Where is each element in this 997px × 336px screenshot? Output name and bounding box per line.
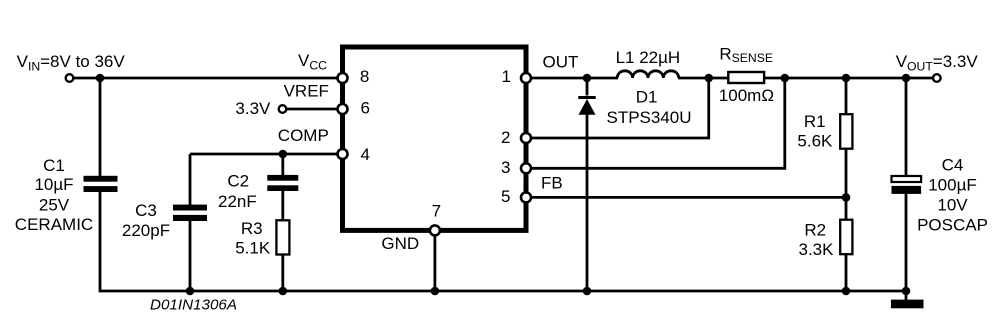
svg-text:10V: 10V xyxy=(937,196,968,215)
resistor R3 symbol xyxy=(276,220,289,254)
diode D1 symbol xyxy=(578,96,595,115)
wire: OUT from pin 1 to L1 xyxy=(526,77,618,80)
terminal: VOUT output xyxy=(933,74,941,82)
wire: pin 2 to switch node xyxy=(526,78,709,138)
svg-text:3.3V: 3.3V xyxy=(235,99,271,118)
svg-text:1: 1 xyxy=(502,67,511,86)
svg-text:C1: C1 xyxy=(43,156,65,175)
wire: L1 to RSENSE xyxy=(678,77,729,80)
svg-text:5: 5 xyxy=(501,187,510,206)
svg-text:100mΩ: 100mΩ xyxy=(719,86,774,105)
wire: VIN input rail to pin 8 xyxy=(70,77,343,80)
svg-text:VREF: VREF xyxy=(284,81,329,100)
capacitor C2 symbol xyxy=(267,175,298,191)
wire: D1 cathode lead xyxy=(586,78,589,96)
svg-text:STPS340U: STPS340U xyxy=(607,108,692,127)
svg-text:6: 6 xyxy=(361,99,370,118)
svg-text:FB: FB xyxy=(541,174,563,193)
svg-text:7: 7 xyxy=(432,201,441,220)
svg-text:D01IN1306A: D01IN1306A xyxy=(150,297,237,314)
pin 4 circle xyxy=(338,149,348,159)
svg-text:25V: 25V xyxy=(39,196,70,215)
wire: FB line from pin 5 xyxy=(526,196,846,199)
svg-text:3: 3 xyxy=(501,158,510,177)
wire: R1 upper lead xyxy=(845,78,848,115)
terminal: VIN input xyxy=(66,74,74,82)
node: L1-RSENSE / pin 2 junction xyxy=(704,74,713,83)
svg-text:D1: D1 xyxy=(636,87,658,106)
terminal: 3.3V VREF xyxy=(279,105,287,113)
svg-text:3.3K: 3.3K xyxy=(799,240,835,259)
wire: C4 lower lead xyxy=(905,192,908,291)
wire: C2 to R3 lead xyxy=(281,190,284,222)
label: C1 name and value block xyxy=(15,156,93,234)
wire: R1 to R2 lead xyxy=(845,148,848,221)
node: C4 ground junction xyxy=(902,287,911,296)
pin 8 circle xyxy=(338,73,348,83)
wire: VREF 3.3V to pin 6 xyxy=(283,108,343,111)
svg-text:GND: GND xyxy=(381,234,419,253)
wire: C3 lower lead xyxy=(189,220,192,292)
svg-text:COMP: COMP xyxy=(278,126,329,145)
resistor RSENSE symbol xyxy=(728,72,764,83)
svg-text:C4: C4 xyxy=(942,155,964,174)
svg-text:10µF: 10µF xyxy=(34,175,73,194)
pin 1 circle xyxy=(521,73,531,83)
svg-text:R2: R2 xyxy=(804,221,826,240)
svg-text:4: 4 xyxy=(361,145,370,164)
node: R3 ground junction xyxy=(279,287,288,296)
svg-text:22nF: 22nF xyxy=(218,192,257,211)
wire: pin 7 GND lead xyxy=(433,230,436,291)
resistor R1 symbol xyxy=(840,114,852,149)
wire: R2 lower lead xyxy=(845,254,848,292)
IC U1 regulator box xyxy=(343,47,527,230)
pin 2 circle xyxy=(521,133,531,143)
wire: C1 branch from VIN node xyxy=(99,78,102,177)
svg-text:2: 2 xyxy=(501,128,510,147)
svg-text:5.6K: 5.6K xyxy=(797,132,833,151)
node: VIN junction xyxy=(96,74,105,83)
node: R1 top junction xyxy=(842,74,851,83)
node: pin 7 ground junction xyxy=(431,287,440,296)
pin 3 circle xyxy=(521,163,531,173)
wire: COMP from pin 4 xyxy=(190,153,343,156)
svg-text:R1: R1 xyxy=(804,112,826,131)
node: COMP junction xyxy=(279,150,288,159)
node: C4 top junction xyxy=(902,74,911,83)
wire: RSENSE to VOUT terminal xyxy=(764,77,937,80)
resistor R2 symbol xyxy=(840,220,852,255)
svg-text:C3: C3 xyxy=(135,201,157,220)
capacitor C3 symbol xyxy=(173,205,207,221)
pin 7 circle xyxy=(430,225,440,235)
node: RSENSE sense junction xyxy=(781,74,790,83)
svg-text:220pF: 220pF xyxy=(122,221,170,240)
node: D1 anode ground junction xyxy=(583,287,592,296)
inductor L1 symbol xyxy=(617,71,679,78)
svg-text:CERAMIC: CERAMIC xyxy=(15,215,93,234)
node: D1 cathode / switch node xyxy=(583,74,592,83)
node: FB divider junction xyxy=(842,193,851,202)
svg-text:OUT: OUT xyxy=(543,52,579,71)
wire: C1 lower lead + bottom ground rail xyxy=(100,191,906,292)
svg-text:POSCAP: POSCAP xyxy=(917,216,988,235)
svg-text:100µF: 100µF xyxy=(928,176,977,195)
svg-text:8: 8 xyxy=(360,67,369,86)
pin 5 circle xyxy=(521,192,531,202)
ground symbol xyxy=(891,300,924,309)
node: R2 ground junction xyxy=(842,287,851,296)
capacitor C4 polarized symbol xyxy=(892,176,922,194)
svg-text:C2: C2 xyxy=(227,171,249,190)
capacitor C1 symbol xyxy=(84,176,118,192)
node: C3 ground junction xyxy=(186,287,195,296)
wire: D1 anode lead to ground rail xyxy=(586,114,589,291)
wire: C4 upper lead xyxy=(905,78,908,177)
svg-text:5.1K: 5.1K xyxy=(235,239,271,258)
wire: ground stub below C4 node xyxy=(905,291,908,301)
svg-text:R3: R3 xyxy=(241,219,263,238)
pin 6 circle xyxy=(338,104,348,114)
wire: C2 upper lead xyxy=(281,154,284,177)
label: C3 name and value block xyxy=(122,201,170,240)
label: C4 name and value block xyxy=(917,155,988,234)
wire: R3 lower lead xyxy=(281,254,284,292)
wire: C3 upper lead xyxy=(189,154,192,206)
wire: pin 3 sense line xyxy=(526,78,785,168)
svg-text:L1 22µH: L1 22µH xyxy=(616,48,681,67)
